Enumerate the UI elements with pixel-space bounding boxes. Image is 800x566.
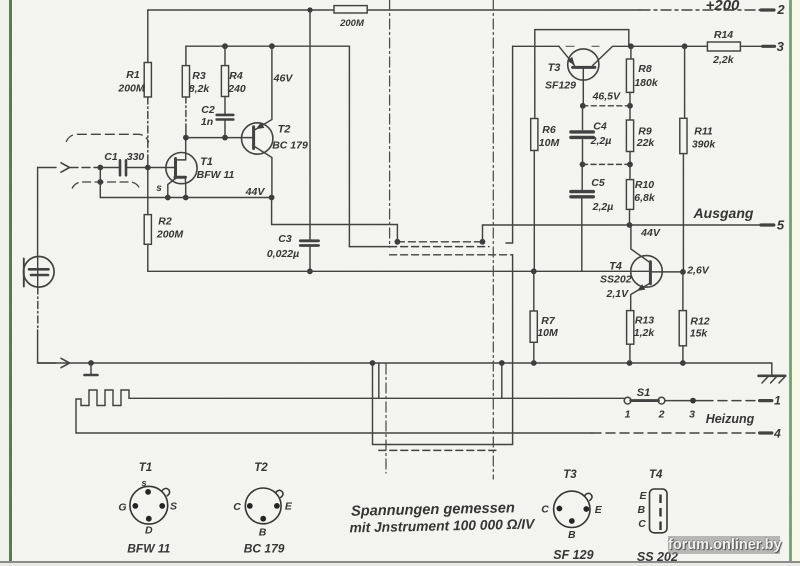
resistor R13 bbox=[627, 311, 634, 345]
node T1 source dot bbox=[165, 195, 171, 201]
wire input dashed to shield node bbox=[70, 167, 100, 169]
pinout T4 leads bbox=[659, 495, 661, 531]
wire T3 top bracket bbox=[535, 29, 629, 31]
input arrow on rail bbox=[61, 358, 70, 367]
transistor T2 body bbox=[242, 123, 273, 154]
node R9/R10 bbox=[627, 162, 633, 168]
wire R10 bottom lead bbox=[629, 209, 631, 225]
wire R2 column through source line bbox=[147, 168, 149, 215]
wire heater return line 4 bbox=[76, 432, 592, 434]
wire R3 lead to base node bbox=[185, 130, 187, 138]
wire R7 bottom lead bbox=[533, 342, 535, 363]
resistor R8 bbox=[626, 59, 633, 92]
transistor T1 drain lead up bbox=[178, 138, 186, 160]
pinout T2 circle bbox=[245, 488, 281, 524]
wire R12 top lead bbox=[682, 272, 684, 311]
node S1 contact 3 bbox=[690, 398, 696, 404]
transistor T3 body bbox=[568, 49, 599, 80]
heater element zigzag bbox=[76, 390, 136, 433]
node 46,5V right (R8/R9) bbox=[627, 103, 633, 109]
terminal 5 dash bbox=[761, 223, 774, 226]
terminal 2 dash bbox=[761, 8, 774, 11]
capacitor C5 (electrolytic) bbox=[571, 192, 593, 197]
wire dashed C4/R9 link bbox=[583, 163, 631, 165]
wire R4 bottom lead to C2 bbox=[224, 97, 226, 114]
transistor T4 base lead right bbox=[652, 271, 683, 273]
wire R8 top lead bbox=[630, 46, 632, 59]
watermark forum.onliner.by bbox=[668, 536, 780, 554]
wire screen stub x378.8 bbox=[378, 364, 380, 398]
node gate junction R1/R2 bbox=[145, 165, 151, 171]
wire heater line to S1 bbox=[136, 397, 624, 399]
node C4 bottom bbox=[580, 162, 586, 168]
transistor T2 collector lead down bbox=[255, 147, 272, 198]
node T1 drain / R3 / base line junction bbox=[183, 135, 189, 141]
node rail input ground bbox=[88, 360, 94, 366]
transistor T3 collector lead bbox=[593, 46, 631, 65]
wire ground rail bbox=[38, 362, 772, 364]
wire R12 bottom lead bbox=[682, 346, 684, 363]
transistor T3 emitter lead bbox=[559, 46, 575, 65]
wire R11 top lead bbox=[684, 46, 686, 118]
fold line dash-dot left bbox=[389, 0, 391, 247]
transistor T2 emitter arrow bbox=[257, 123, 264, 129]
pinout T4 package outline bbox=[650, 489, 668, 533]
ground symbol right bbox=[771, 363, 773, 375]
node C2 / base line junction bbox=[222, 135, 228, 141]
wire screen box left column bbox=[372, 363, 374, 445]
wire screen column x512 lower bbox=[512, 255, 514, 445]
wire screened dashed y254.8 bbox=[390, 254, 513, 256]
transistor T4 base bar bbox=[649, 262, 652, 284]
microphone backplate bracket bbox=[23, 259, 25, 287]
wire R1 lead to gate node bbox=[147, 158, 149, 168]
node T4 base / divider 2,6V bbox=[680, 269, 686, 275]
wire shield node vertical bbox=[99, 168, 101, 198]
wire R10 top lead bbox=[629, 164, 631, 179]
wire R11 bottom long lead bbox=[682, 154, 684, 272]
node screened dash right bbox=[480, 239, 486, 245]
resistor R4 bbox=[221, 66, 228, 97]
transistor T3 emitter arrow bbox=[568, 57, 575, 64]
node shield dash left bbox=[395, 239, 401, 245]
resistor R14 horizontal bbox=[707, 42, 740, 51]
node junction top rail / C3 column bbox=[307, 7, 312, 12]
wire R9 bottom lead bbox=[629, 152, 631, 165]
switch S1 arm bbox=[631, 399, 659, 402]
node rail x372.5 bbox=[370, 360, 376, 366]
wire R3/R4 top rail 46V bbox=[186, 45, 350, 47]
shield arc upper (dashed) bbox=[66, 134, 148, 142]
wire bracket left leg to R6 bbox=[534, 30, 536, 119]
transistor T4 collector lead up bbox=[631, 225, 650, 263]
transistor T1 gate bar bbox=[174, 159, 177, 178]
terminal 4 dash bbox=[760, 431, 772, 434]
wire screened route vertical x350 bbox=[348, 46, 350, 246]
pinout T1 tab bbox=[162, 488, 170, 496]
wire R7 top lead bbox=[533, 271, 535, 311]
capacitor C3 bbox=[300, 241, 318, 246]
wire screened dashed y241.8 bbox=[397, 241, 482, 243]
input arrow bbox=[61, 163, 70, 172]
wire base line T3 from screen column bbox=[513, 45, 559, 47]
wire C3 bottom lead bbox=[309, 247, 311, 272]
wire C4 bottom lead bbox=[582, 140, 584, 165]
node input/C1 junction bbox=[97, 165, 103, 171]
wire mic column upper bbox=[37, 168, 39, 257]
node R11 top bbox=[682, 43, 688, 49]
wire mic column to ground rail bbox=[38, 330, 56, 363]
wire through microphone bbox=[37, 257, 39, 288]
wire S1 to contact 3 bbox=[665, 400, 704, 402]
wire mic column lower (dash-dot) bbox=[37, 287, 39, 330]
node R4 top bbox=[222, 43, 228, 49]
resistor R10 bbox=[626, 180, 633, 210]
resistor R9 bbox=[626, 120, 633, 152]
resistor R1 bbox=[144, 63, 151, 98]
wire R8 bottom lead bbox=[629, 92, 631, 105]
transistor T2 emitter lead up bbox=[255, 46, 272, 130]
node R6/R7 on feedback line bbox=[531, 268, 537, 274]
capacitor C1 bbox=[120, 160, 126, 175]
wire bracket right leg to R8 node bbox=[628, 30, 630, 47]
wire R3 bottom lead dashed bbox=[185, 97, 187, 130]
wire dashed 46,5V link bbox=[583, 105, 630, 107]
wire C2 bottom lead bbox=[224, 121, 226, 138]
wire R6 bottom long lead bbox=[533, 151, 535, 272]
wire 44V routing down bbox=[272, 198, 398, 242]
microphone capsule plates bbox=[29, 269, 49, 275]
fold line dash-dot right (full height) bbox=[492, 0, 494, 479]
ground symbol left bbox=[90, 363, 92, 374]
wire screen box bottom bbox=[373, 444, 513, 446]
node rail R7 bottom bbox=[531, 360, 537, 366]
transistor T1 case lead bbox=[184, 179, 186, 198]
wire R4 top lead bbox=[224, 46, 226, 65]
resistor R12 bbox=[679, 311, 686, 346]
pinout T3 pins bbox=[557, 506, 590, 524]
wire heater return line 4 dashed part bbox=[592, 432, 760, 434]
node 46,5V left bbox=[580, 103, 586, 109]
capacitor C2 bbox=[217, 115, 234, 120]
wire R13 bottom lead bbox=[629, 344, 631, 363]
shield arc lower (dashed) bbox=[72, 182, 139, 188]
wire input stub left bbox=[38, 167, 56, 169]
resistor R3 bbox=[182, 66, 189, 97]
wire T2 base line bbox=[186, 137, 253, 139]
microphone M1 body bbox=[24, 257, 55, 288]
transistor T3 base bar bbox=[573, 66, 595, 69]
wire feedback line (R2 to T4 base) bbox=[148, 270, 649, 272]
wire screen stub x501.8 bbox=[501, 364, 503, 398]
resistor R11 bbox=[680, 118, 687, 153]
node R8 top bbox=[628, 43, 634, 49]
pinout T1 pins bbox=[132, 489, 165, 522]
wire R14 line bbox=[631, 45, 708, 47]
wire +200 rail top bbox=[148, 9, 640, 11]
wire C5 top lead bbox=[581, 164, 583, 189]
node T2 emitter top bbox=[269, 43, 275, 49]
transistor T2 base bar bbox=[252, 127, 255, 149]
capacitor C4 (electrolytic) bbox=[571, 132, 593, 138]
wire screened corner y246.6 bbox=[349, 246, 389, 248]
pinout T3 tab bbox=[584, 493, 592, 501]
wire C3 column bbox=[309, 10, 311, 240]
wire contact 3 to terminal 1 dashed bbox=[704, 400, 760, 402]
transistor T1 channel bar bbox=[175, 176, 186, 179]
wire T3 base lead down bbox=[582, 69, 584, 106]
resistor R2 bbox=[144, 215, 151, 245]
scan noise overlay bbox=[0, 0, 1, 1]
wire screen column x512 upper bbox=[506, 46, 513, 243]
resistor R5 200M horizontal top bbox=[334, 6, 367, 13]
node C3 / feedback line bbox=[307, 268, 313, 274]
wire Ausgang line bbox=[483, 224, 761, 226]
wire C1 left lead bbox=[100, 167, 118, 169]
wire output riser x482.5 bbox=[482, 225, 484, 242]
node R10/T4 collector on Ausgang line bbox=[627, 222, 633, 228]
wire source line 44V bbox=[100, 197, 271, 199]
node rail R13 bottom bbox=[627, 360, 633, 366]
wire R1 bottom lead (dash-dot) bbox=[147, 97, 149, 158]
wire R3 top lead bbox=[185, 46, 187, 65]
node 44V / T2 collector junction bbox=[269, 195, 275, 201]
wire screened dashed y246.6 bbox=[390, 246, 489, 248]
wire +200 rail dashed right portion bbox=[640, 9, 760, 11]
pinout T1 circle bbox=[130, 486, 168, 524]
wire C4 top lead bbox=[582, 106, 584, 130]
pinout T2 tab bbox=[275, 490, 283, 498]
switch S1 contact 1 bbox=[624, 397, 631, 404]
node rail R12 bottom bbox=[680, 360, 686, 366]
wire R14 to terminal 3 bbox=[740, 45, 762, 47]
terminal 1 dash bbox=[760, 399, 772, 402]
node shield junction bbox=[97, 179, 103, 185]
page frame bbox=[0, 0, 9, 566]
switch S1 contact 2 bbox=[658, 397, 665, 404]
node rail x501.8 bbox=[499, 360, 505, 366]
transistor T1 source lead bbox=[168, 179, 176, 198]
wire base line dashes to collector node bbox=[566, 45, 599, 47]
transistor T1 body bbox=[166, 153, 197, 184]
wire R1 top lead bbox=[147, 10, 149, 63]
wire C1 right lead to gate bbox=[127, 167, 173, 169]
node T1 shield-lead dot bbox=[183, 195, 189, 201]
transistor T4 body bbox=[631, 256, 663, 288]
wire screen box inner dashed bbox=[379, 449, 498, 451]
pinout T2 pins bbox=[247, 503, 280, 522]
resistor R7 bbox=[530, 311, 537, 342]
transistor T4 emitter lead down bbox=[631, 283, 650, 310]
resistor R6 bbox=[531, 119, 538, 151]
wire C5 bottom lead to T4 base bbox=[581, 199, 583, 272]
terminal 3 dash bbox=[763, 45, 775, 48]
wire R9 top lead bbox=[629, 106, 631, 120]
wire R2 bottom to feedback line bbox=[147, 244, 149, 271]
pinout T3 circle bbox=[554, 491, 590, 527]
fold line dash-dot below rail bbox=[385, 364, 387, 473]
transistor T4 emitter arrow bbox=[638, 285, 645, 291]
